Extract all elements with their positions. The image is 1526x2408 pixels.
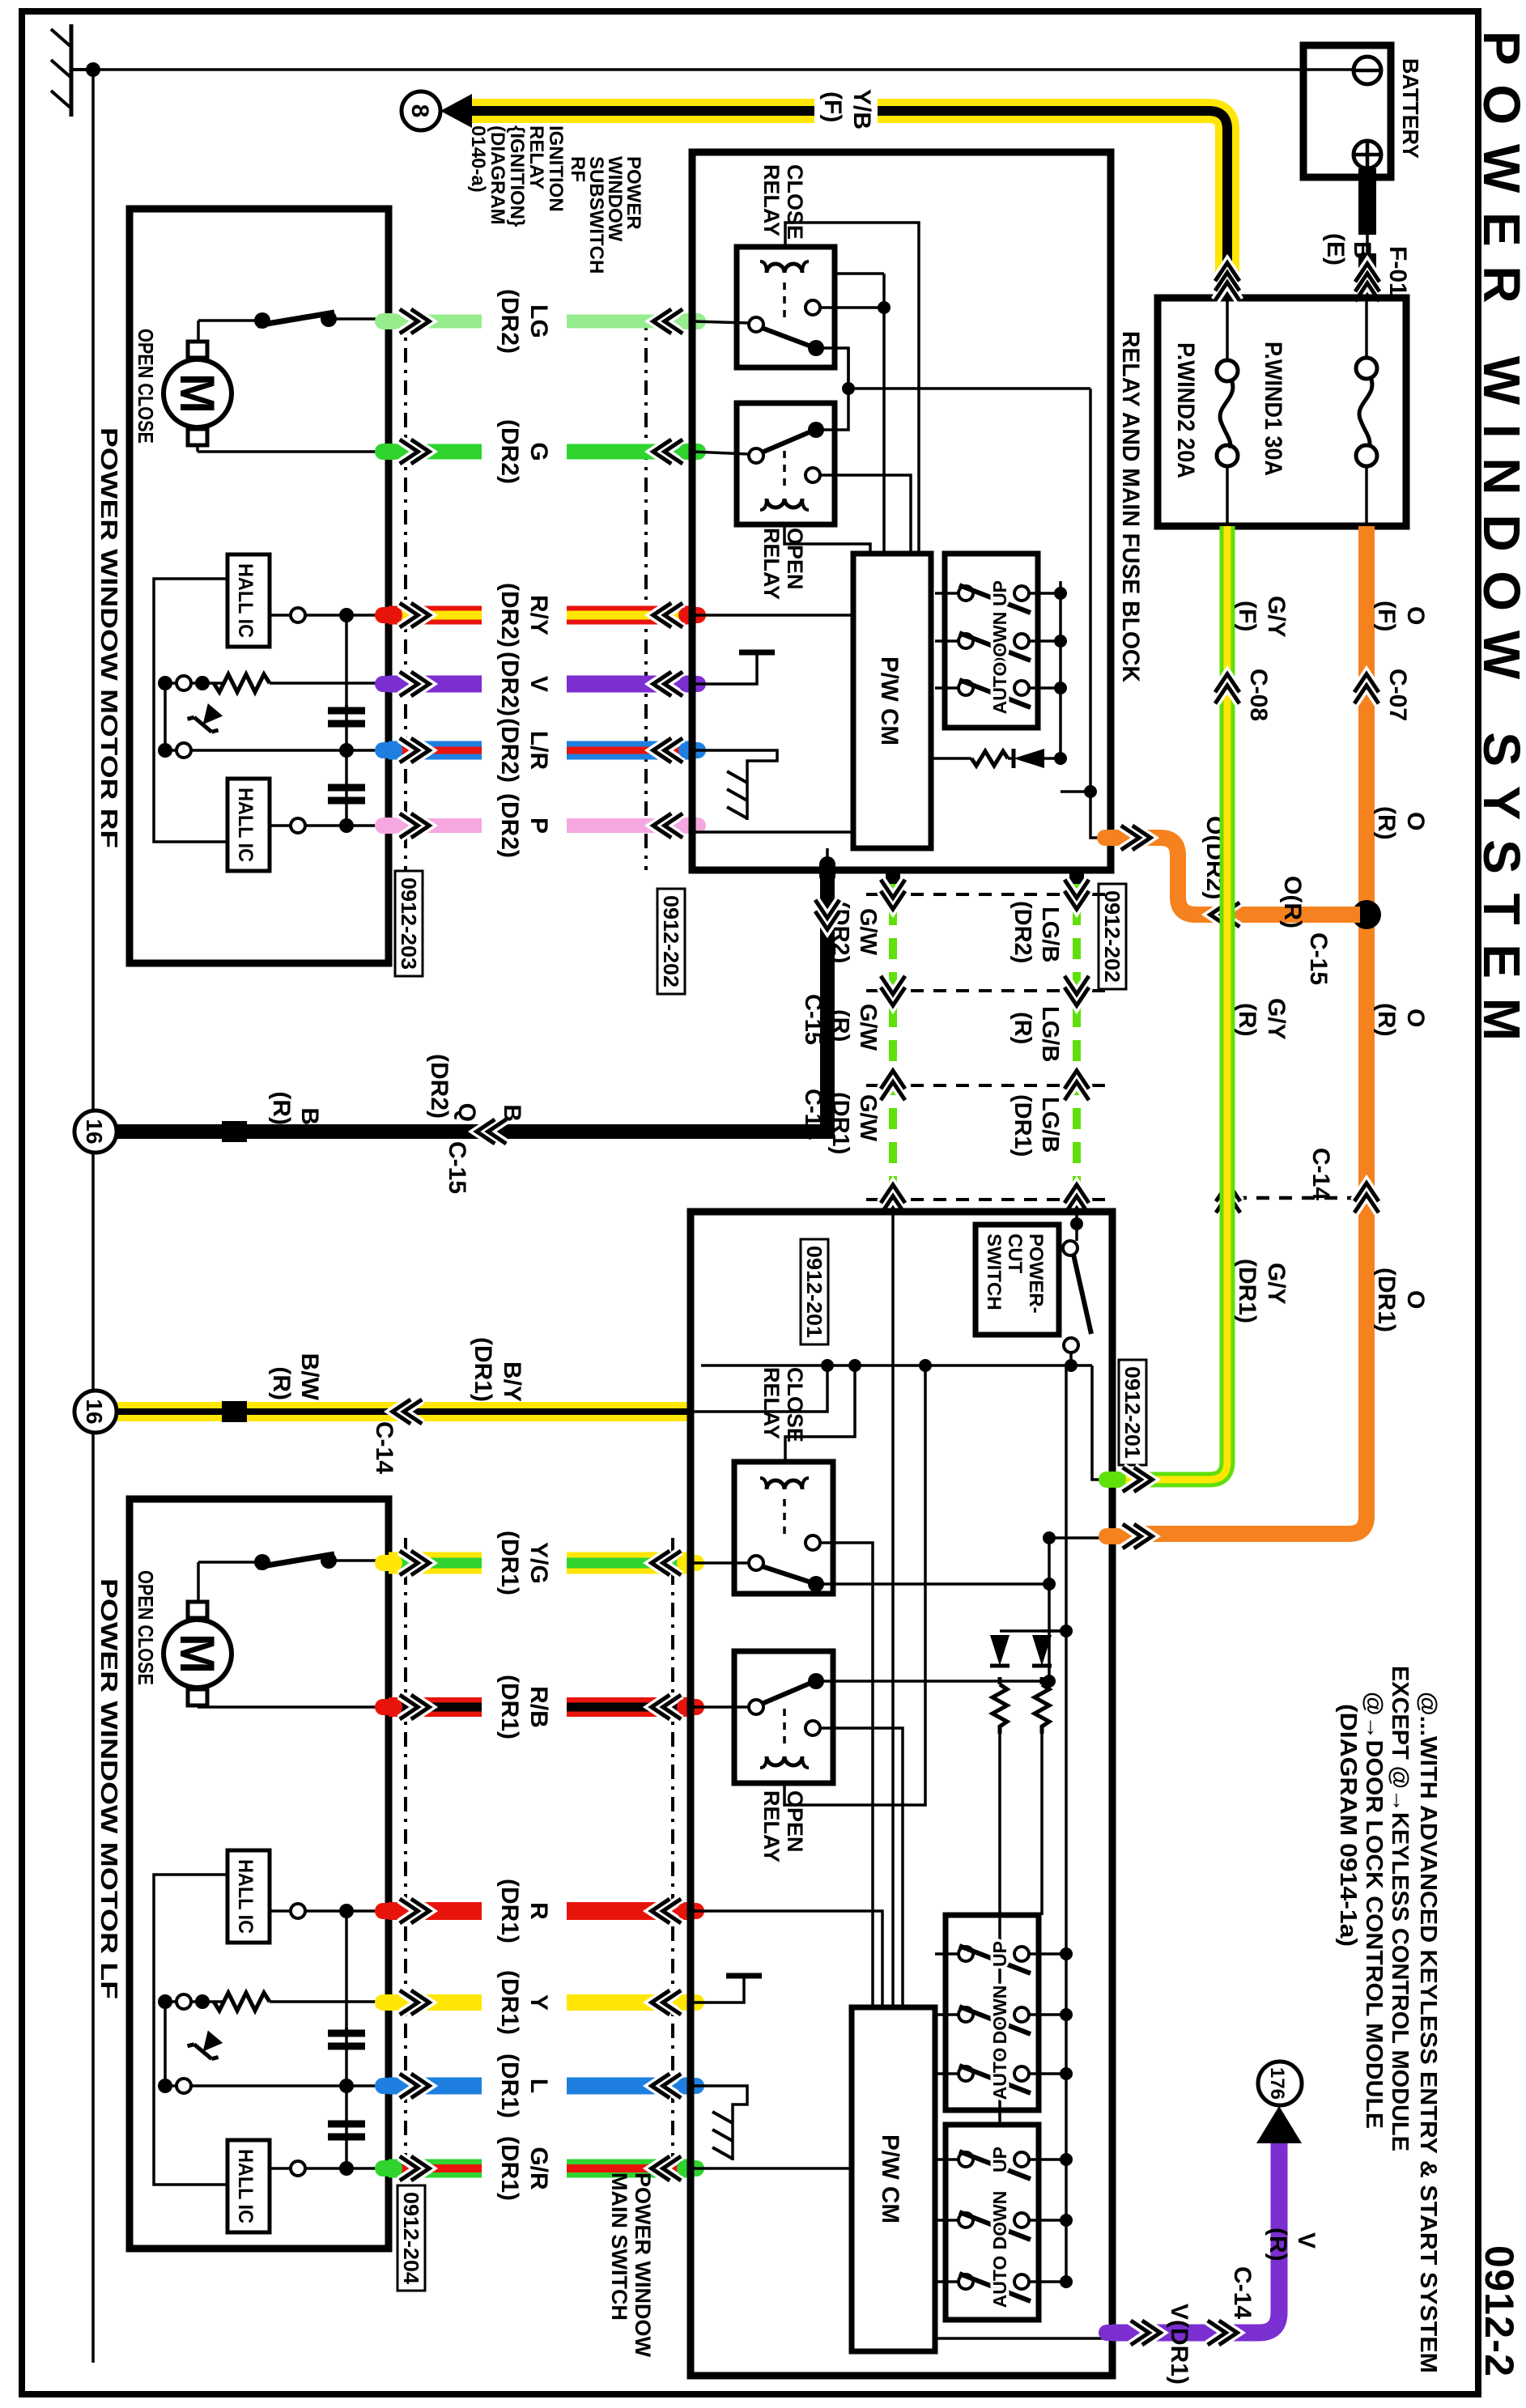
- window position switch in motor: [254, 312, 270, 329]
- connector C-14 crossing O and G/Y: [1235, 1196, 1360, 1200]
- wire O battery feed inside main switch: [1049, 1538, 1112, 1681]
- main switch bus: [1065, 1365, 1068, 2288]
- svg-text:G/W: G/W: [855, 1094, 881, 1142]
- svg-text:L: L: [525, 2079, 552, 2093]
- O(DR2) entry connector at subswitch: [1097, 830, 1124, 846]
- svg-text:RELAY: RELAY: [759, 1790, 784, 1862]
- wire LG (DR2) subswitch to motor RF: [567, 315, 692, 329]
- svg-text:C-07: C-07: [1384, 669, 1411, 721]
- capacitor 1 in motor: [328, 705, 365, 724]
- svg-text:(R): (R): [1010, 1012, 1035, 1044]
- window position switch in motor: [254, 1554, 270, 1570]
- wire V (DR1) from main switch to door lock module: [1112, 2142, 1279, 2333]
- resistor and diode of subswitch: [1054, 752, 1067, 765]
- connector C-15 boundary: [866, 989, 1105, 992]
- close relay of subswitch: [737, 247, 835, 367]
- power window motor RF box: [130, 209, 389, 963]
- wire O battery feed from fuse P.WIND1: [1121, 526, 1367, 1534]
- svg-text:(DR2): (DR2): [1010, 901, 1035, 963]
- svg-text:LG/B: LG/B: [1037, 1097, 1063, 1153]
- motor M: [164, 359, 232, 427]
- svg-text:O: O: [1402, 1290, 1429, 1309]
- svg-text:POWER WINDOW MOTOR RF: POWER WINDOW MOTOR RF: [96, 427, 121, 848]
- svg-text:UP: UP: [989, 580, 1010, 606]
- svg-text:(DIAGRAM 0914-1a): (DIAGRAM 0914-1a): [1335, 1704, 1361, 1947]
- switch UP subswitch: [959, 586, 973, 601]
- subswitch internal bus B: [785, 223, 919, 554]
- motor M: [164, 1620, 232, 1688]
- svg-text:CUT: CUT: [1004, 1234, 1026, 1274]
- wire B (DR2) subswitch ground to connector 16: [117, 870, 827, 1132]
- svg-text:(DR1): (DR1): [1010, 1094, 1035, 1157]
- svg-text:0912-203: 0912-203: [397, 877, 421, 970]
- svg-text:(DR2): (DR2): [496, 289, 523, 354]
- svg-text:DOWN: DOWN: [989, 2191, 1010, 2250]
- switch DOWN main: [959, 2213, 973, 2228]
- svg-text:C-14: C-14: [371, 1421, 397, 1474]
- svg-text:OPEN CLOSE: OPEN CLOSE: [134, 1570, 158, 1685]
- svg-text:Q: Q: [453, 1103, 480, 1122]
- svg-text:EXCEPT @→KEYLESS CONTROL MODUL: EXCEPT @→KEYLESS CONTROL MODULE: [1387, 1666, 1413, 2151]
- wire Y/G to close relay pivot: [691, 1561, 749, 1565]
- svg-text:RELAY: RELAY: [525, 125, 547, 189]
- svg-text:(DR1): (DR1): [496, 1970, 523, 2035]
- harness boundary near subswitch: [644, 316, 648, 870]
- ground bus wire: [93, 68, 1354, 71]
- svg-text:LG: LG: [525, 304, 552, 338]
- svg-text:0912-202: 0912-202: [659, 895, 683, 987]
- svg-text:V: V: [1293, 2232, 1320, 2249]
- close relay fixed contact wire: [820, 1543, 873, 2007]
- wire LG to close relay pivot: [692, 321, 749, 323]
- switch DOWN main: [959, 2007, 973, 2022]
- wire L (DR1): [567, 2078, 691, 2095]
- wire R/Y (DR2): [567, 606, 692, 625]
- wire V from P/W CM: [935, 2337, 1112, 2340]
- svg-text:HALL IC: HALL IC: [234, 1859, 257, 1934]
- svg-text:R/Y: R/Y: [525, 595, 552, 635]
- svg-text:G/W: G/W: [855, 1004, 881, 1051]
- svg-text:UP: UP: [989, 1941, 1010, 1967]
- svg-text:DOWN: DOWN: [989, 1985, 1010, 2045]
- svg-text:OPEN: OPEN: [783, 1790, 807, 1853]
- svg-text:HALL IC: HALL IC: [234, 563, 257, 638]
- wire G/W dashed between subswitch and main switch: [889, 870, 897, 1212]
- connector ref 0912-204: [397, 2185, 425, 2291]
- svg-text:(R): (R): [1373, 1003, 1400, 1037]
- svg-text:(DR2): (DR2): [496, 652, 523, 716]
- svg-text:G/R: G/R: [525, 2147, 552, 2190]
- wire open relay coil to P/W CM: [784, 524, 870, 554]
- zener row wire: [165, 2084, 389, 2087]
- capacitor ladder wire: [345, 1911, 348, 2168]
- svg-text:(R): (R): [268, 1091, 295, 1125]
- wire close relay fixed contact to bus: [820, 306, 884, 309]
- zener diode in motor: [188, 2027, 227, 2066]
- svg-text:M: M: [170, 373, 224, 414]
- hall IC 2: [227, 779, 270, 871]
- svg-text:Y/B: Y/B: [848, 89, 875, 130]
- svg-text:OPEN: OPEN: [783, 528, 807, 590]
- switch DOWN subswitch: [959, 634, 973, 648]
- diode resistor chain 1: [1042, 1629, 1066, 1633]
- svg-text:0912-202: 0912-202: [1100, 890, 1124, 983]
- svg-text:P: P: [525, 818, 552, 834]
- wire P to P/W CM: [692, 830, 853, 834]
- wire LG/B dashed between subswitch and main switch: [1073, 870, 1081, 1212]
- switch UP main: [959, 1947, 973, 1961]
- wire R/B (DR1): [567, 1697, 691, 1717]
- svg-text:B: B: [1349, 241, 1375, 259]
- fuse P.WIND1 30A: [1365, 298, 1368, 368]
- open relay of main switch: [734, 1651, 833, 1783]
- wire V (DR2): [567, 676, 692, 693]
- capacitor 2 in motor: [328, 2124, 365, 2137]
- svg-text:(R): (R): [268, 1366, 295, 1400]
- power window subswitch RF box: [692, 152, 1111, 870]
- wire P (DR2): [567, 818, 692, 833]
- L ground in main switch: [691, 2086, 747, 2160]
- V exit connector at main switch: [1099, 2325, 1126, 2341]
- harness boundary near motor LF: [404, 1538, 407, 2185]
- wire L/R (DR2): [567, 741, 692, 760]
- up-down-auto switch 1 of main switch: [946, 1915, 1039, 2110]
- wire open relay fixed contact riser: [820, 475, 911, 554]
- hall IC 1: [227, 1850, 270, 1943]
- svg-text:LG/B: LG/B: [1037, 907, 1063, 962]
- wire B/Y inside main switch: [691, 1365, 827, 1412]
- svg-text:(R): (R): [1265, 2228, 1291, 2261]
- svg-text:(DR2): (DR2): [426, 1054, 453, 1119]
- ground connector circle 16 left: [74, 1111, 117, 1153]
- wire B (E) battery to fuse block: [1354, 154, 1367, 156]
- svg-text:(DR2): (DR2): [496, 583, 523, 648]
- wire R to P/W CM: [691, 1911, 882, 2007]
- ground connector circle 16 right: [74, 1391, 117, 1433]
- wire O to close relay contact: [823, 1582, 1049, 1586]
- V wire termination: [692, 652, 757, 684]
- resistor in motor: [270, 682, 389, 685]
- svg-text:8: 8: [406, 104, 433, 118]
- svg-text:AUTO: AUTO: [989, 662, 1010, 715]
- power cut switch box: [976, 1225, 1059, 1335]
- svg-text:L/R: L/R: [525, 731, 552, 771]
- G/Y entry connector at main switch: [1099, 1472, 1126, 1488]
- Y wire termination main switch: [691, 1976, 744, 2002]
- connector ref 0912-203: [395, 871, 423, 976]
- zener row wire: [165, 749, 389, 752]
- svg-text:P.WIND1 30A: P.WIND1 30A: [1260, 342, 1286, 476]
- svg-text:0912-201: 0912-201: [802, 1246, 827, 1338]
- wire B/Y (DR1) main switch to connector 16: [117, 1402, 691, 1421]
- svg-text:(DR2): (DR2): [496, 718, 523, 783]
- svg-text:B: B: [296, 1107, 323, 1125]
- svg-text:@→DOOR LOCK CONTROL MODULE: @→DOOR LOCK CONTROL MODULE: [1361, 1692, 1387, 2129]
- diode resistor chain 2: [1000, 1629, 1066, 1633]
- switch AUTO main: [959, 2066, 973, 2081]
- svg-text:V(DR1): V(DR1): [1166, 2304, 1192, 2385]
- svg-text:(DR2): (DR2): [496, 793, 523, 858]
- svg-text:(DR1): (DR1): [496, 2136, 523, 2201]
- svg-text:UP: UP: [989, 2147, 1010, 2172]
- connector C-15 on O(DR2) branch: [1210, 902, 1240, 927]
- hall IC bracket wire: [154, 1875, 227, 2185]
- svg-text:B/Y: B/Y: [499, 1361, 525, 1402]
- ignition relay reference circle 8: [440, 94, 472, 128]
- switch AUTO subswitch: [959, 681, 973, 695]
- svg-text:G: G: [525, 442, 552, 461]
- main switch internal bus: [701, 1364, 1092, 1367]
- subswitch switch bus: [1059, 581, 1062, 765]
- junction dot O(R): [1352, 900, 1381, 929]
- wire B ground from P/W CM: [826, 848, 829, 870]
- connector F-01: [1355, 264, 1379, 302]
- svg-text:(DR1): (DR1): [496, 1879, 523, 1943]
- wire G/Y inside main switch: [1092, 1365, 1112, 1480]
- svg-text:(DR2): (DR2): [496, 419, 523, 484]
- close relay of main switch: [734, 1462, 833, 1594]
- svg-text:RELAY: RELAY: [759, 528, 784, 600]
- open relay coil wire: [784, 1365, 925, 1805]
- svg-text:R: R: [525, 1902, 552, 1920]
- harness boundary near motor RF: [404, 316, 407, 870]
- svg-text:HALL IC: HALL IC: [234, 2149, 257, 2223]
- svg-text:RELAY AND MAIN FUSE BLOCK: RELAY AND MAIN FUSE BLOCK: [1117, 331, 1144, 682]
- svg-text:@...WITH ADVANCED KEYLESS ENTR: @...WITH ADVANCED KEYLESS ENTRY & START …: [1415, 1692, 1441, 2373]
- svg-text:R/B: R/B: [525, 1686, 552, 1728]
- up-down-auto switch of subswitch: [945, 554, 1038, 728]
- connector C-08 on G/Y wire: [1215, 674, 1239, 704]
- svg-text:DOWN: DOWN: [989, 612, 1010, 671]
- wire R/Y to P/W CM: [692, 614, 853, 617]
- svg-text:CLOSE: CLOSE: [783, 1367, 807, 1442]
- svg-text:G/Y: G/Y: [1263, 1263, 1290, 1305]
- svg-text:(DR1): (DR1): [496, 1531, 523, 1595]
- hall IC 2: [227, 2140, 270, 2232]
- harness boundary at subswitch connector: [866, 893, 1105, 896]
- svg-text:O: O: [1402, 812, 1429, 830]
- svg-text:{IGNITION}: {IGNITION}: [506, 125, 528, 227]
- power cut switch symbol: [1063, 1241, 1078, 1255]
- power window main switch box: [691, 1212, 1112, 2376]
- capacitor 1 in motor: [328, 2028, 365, 2046]
- wire O(DR2) feed inside subswitch: [1090, 389, 1111, 838]
- svg-text:0140-a): 0140-a): [467, 125, 489, 193]
- connector ref 0912-201 above main switch: [1119, 1360, 1146, 1465]
- svg-text:0912-201: 0912-201: [1120, 1366, 1145, 1459]
- wire Y (DR1): [567, 1994, 691, 2011]
- svg-text:Y: Y: [525, 1994, 552, 2011]
- P/W CM box of main switch: [852, 2007, 935, 2351]
- svg-text:B/W: B/W: [296, 1353, 323, 1401]
- svg-text:(DR1): (DR1): [1373, 1268, 1400, 1332]
- capacitor ladder wire: [345, 615, 348, 826]
- svg-text:POWER WINDOW: POWER WINDOW: [631, 2172, 655, 2357]
- zener diode in motor: [188, 700, 227, 739]
- open relay fixed contact wire: [820, 1728, 903, 2007]
- wire G/W inside main switch: [891, 1212, 895, 2007]
- battery positive terminal: [1354, 141, 1381, 168]
- svg-text:V: V: [525, 676, 552, 692]
- wire G/R to P/W CM: [691, 2167, 852, 2170]
- switch UP main: [959, 2152, 973, 2167]
- wire R (DR1): [567, 1902, 691, 1920]
- connector C-07 on O wire: [1354, 674, 1379, 704]
- svg-text:(DR1): (DR1): [496, 1675, 523, 1739]
- wire G to open relay pivot: [692, 452, 749, 454]
- svg-text:(DIAGRAM: (DIAGRAM: [487, 125, 508, 225]
- svg-text:C-15: C-15: [444, 1141, 470, 1194]
- L/R ground in subswitch: [692, 750, 777, 820]
- B exit connector at subswitch: [819, 856, 835, 884]
- svg-text:(R): (R): [1234, 1003, 1260, 1037]
- battery negative terminal: [1354, 57, 1381, 84]
- svg-text:RF: RF: [567, 156, 589, 182]
- wire G/R (DR1): [567, 2160, 691, 2178]
- svg-text:BATTERY: BATTERY: [1398, 58, 1423, 159]
- wire R/B to open relay pivot: [691, 1705, 749, 1709]
- O entry connector at main switch: [1099, 1528, 1126, 1544]
- wire close relay moving contact riser: [823, 348, 848, 389]
- svg-text:G/Y: G/Y: [1263, 596, 1290, 638]
- svg-text:O: O: [1402, 1009, 1429, 1027]
- svg-text:G/Y: G/Y: [1263, 998, 1290, 1040]
- svg-text:RELAY: RELAY: [759, 1367, 784, 1439]
- harness boundary near main switch: [671, 1538, 674, 2185]
- svg-text:P/W CM: P/W CM: [876, 656, 903, 745]
- ground symbol: [86, 62, 100, 77]
- svg-text:O: O: [1402, 606, 1429, 625]
- connector C-14 boundary: [866, 1084, 1105, 1087]
- capacitor 2 in motor: [328, 788, 365, 801]
- wire motor to close-side terminal: [196, 445, 199, 452]
- svg-text:C-14: C-14: [1229, 2266, 1256, 2319]
- svg-text:(F): (F): [1234, 601, 1260, 631]
- close relay coil wire: [785, 1365, 855, 1462]
- svg-text:(DR1): (DR1): [470, 1337, 496, 1402]
- wire O to open relay contact: [823, 1680, 1049, 1683]
- wire G/Y from fuse P.WIND2 to main switch: [1121, 526, 1227, 1480]
- svg-text:P.WIND2 20A: P.WIND2 20A: [1172, 342, 1199, 478]
- svg-text:16: 16: [82, 1399, 107, 1424]
- svg-text:0912-204: 0912-204: [399, 2192, 423, 2285]
- wire Y/B (F) fuse block to ignition relay: [878, 111, 1227, 298]
- wire O(DR2) branch to subswitch: [1112, 838, 1360, 915]
- switch AUTO main: [959, 2274, 973, 2289]
- door lock module reference circle 176: [1258, 2062, 1302, 2105]
- svg-text:AUTO: AUTO: [989, 2048, 1010, 2100]
- svg-text:M: M: [170, 1633, 224, 1674]
- wire G (DR2): [567, 444, 692, 460]
- hall IC 1: [227, 554, 270, 647]
- svg-text:(F): (F): [819, 91, 846, 122]
- fuse block box: [1158, 298, 1406, 526]
- svg-text:SWITCH: SWITCH: [983, 1234, 1005, 1310]
- svg-text:C-15: C-15: [1305, 932, 1332, 985]
- fuse P.WIND2 20A: [1226, 298, 1229, 371]
- resistor in motor: [270, 2000, 389, 2003]
- open relay of subswitch: [737, 403, 835, 524]
- svg-text:AUTO: AUTO: [989, 2256, 1010, 2308]
- svg-text:MAIN SWITCH: MAIN SWITCH: [607, 2172, 631, 2321]
- svg-text:C-08: C-08: [1245, 669, 1272, 721]
- svg-text:F-01: F-01: [1384, 246, 1411, 296]
- wire LG/B into power cut switch: [1075, 1212, 1078, 1241]
- svg-text:O(R): O(R): [1279, 876, 1306, 928]
- svg-text:(F): (F): [1373, 601, 1400, 631]
- svg-text:16: 16: [82, 1119, 107, 1144]
- subswitch internal bus A: [882, 274, 886, 554]
- svg-text:P/W CM: P/W CM: [877, 2134, 903, 2223]
- svg-text:G/W: G/W: [855, 908, 881, 956]
- wire moving contacts common: [823, 348, 848, 430]
- P/W CM box of subswitch: [853, 554, 931, 848]
- svg-text:IGNITION: IGNITION: [545, 125, 567, 212]
- svg-text:C-14: C-14: [1307, 1148, 1334, 1200]
- svg-text:OPEN CLOSE: OPEN CLOSE: [134, 329, 158, 444]
- arrow to door lock control module: [1256, 2106, 1302, 2143]
- svg-text:176: 176: [1266, 2067, 1288, 2100]
- svg-text:B: B: [499, 1104, 525, 1122]
- up-down-auto switch 2 of main switch: [946, 2125, 1039, 2320]
- wire Y/G (DR1) main switch to motor LF: [567, 1552, 691, 1574]
- wire motor to close-side terminal: [196, 1705, 199, 1707]
- power window motor LF box: [130, 1499, 389, 2249]
- svg-text:(DR1): (DR1): [1234, 1259, 1260, 1323]
- connector ref 0912-202 above subswitch right: [1099, 884, 1126, 989]
- battery: [1303, 45, 1391, 177]
- svg-text:POWER WINDOW MOTOR LF: POWER WINDOW MOTOR LF: [96, 1578, 121, 1999]
- svg-text:POWER-: POWER-: [1025, 1234, 1047, 1314]
- svg-text:HALL IC: HALL IC: [234, 788, 257, 862]
- svg-text:LG/B: LG/B: [1037, 1006, 1063, 1062]
- hall IC bracket wire: [154, 579, 227, 842]
- svg-text:0912-2: 0912-2: [1477, 2245, 1522, 2376]
- svg-text:RELAY: RELAY: [759, 164, 784, 236]
- connector ref 0912-201 inside main switch: [801, 1239, 828, 1344]
- svg-text:(DR1): (DR1): [496, 2053, 523, 2118]
- svg-text:(R): (R): [1373, 806, 1400, 840]
- connector ref 0912-202 below subswitch: [657, 889, 685, 994]
- harness boundary at main switch connector: [866, 1198, 1105, 1201]
- svg-text:(E): (E): [1322, 233, 1349, 265]
- svg-text:Y/G: Y/G: [525, 1542, 552, 1584]
